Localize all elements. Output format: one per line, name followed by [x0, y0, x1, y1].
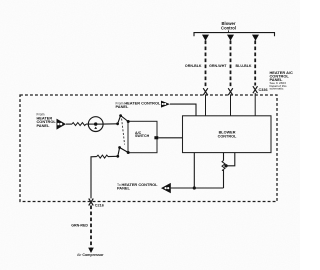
svg-text:CONTROL: CONTROL	[218, 134, 237, 138]
A/C switch box	[128, 121, 157, 152]
striped wire to A/C compressor	[90, 206, 92, 249]
resistor (in-line squiggle, lower-left)	[97, 155, 108, 158]
striped wire 3 (BLU-BLK)	[254, 41, 256, 86]
label "From HEATER CONTROL PANEL" (top)	[116, 100, 162, 109]
svg-text:PANEL: PANEL	[117, 186, 131, 191]
wire A/C switch to blower control	[158, 137, 183, 139]
svg-text:GRN-WHT: GRN-WHT	[209, 64, 227, 68]
svg-text:GRN-RED: GRN-RED	[71, 224, 88, 228]
switch blade (top)	[116, 114, 130, 125]
in-line connector X on wire 1	[203, 88, 208, 95]
in-line connector X (C216)	[89, 199, 94, 206]
wire circle to A/C switch	[103, 123, 118, 125]
wire from connector to box (x=255.2)	[254, 93, 256, 116]
wire to left corner and down	[91, 157, 97, 199]
wire from top arrow to blower control box	[170, 104, 196, 116]
wire arrow to resistor	[66, 123, 72, 125]
svg-text:PANEL: PANEL	[37, 123, 51, 128]
wire box to output junction (x=194.3)	[193, 153, 195, 189]
arrow to air compressor	[88, 248, 94, 253]
wire to heater control panel (horizontal)	[171, 187, 224, 189]
label "To HEATER CONTROL PANEL"	[117, 182, 158, 191]
resistor (vertical squiggle)	[222, 161, 225, 171]
EVTM arrow (to heater control panel)	[161, 183, 171, 193]
blower control box	[183, 116, 272, 153]
in-line connector X on wire 3	[253, 86, 258, 93]
arrow into wire 1	[202, 35, 209, 41]
arrow into wire 3	[252, 35, 259, 41]
connector bracket label "Blower Control"	[221, 21, 236, 30]
jumper wire to second box pin	[226, 153, 235, 166]
bracket tick	[228, 30, 230, 32]
EVTM arrow (from heater control panel, top)	[161, 101, 170, 108]
in-line connector X on wire 2	[228, 88, 233, 95]
wire from connector to box (x=230.5)	[230, 95, 232, 116]
svg-text:PANEL: PANEL	[116, 104, 130, 109]
wire from box down through resistor to horizontal run	[223, 153, 225, 161]
wire from bottom switch blade left	[108, 155, 118, 157]
junction node	[193, 186, 196, 189]
junction node at resistor tap	[224, 164, 227, 167]
svg-text:BLU-BLK: BLU-BLK	[236, 64, 252, 68]
striped wire 2 (GRN-WHT)	[230, 41, 232, 88]
svg-text:ORN-BLK: ORN-BLK	[185, 64, 202, 68]
arrow into wire 2	[227, 35, 234, 41]
svg-text:C216: C216	[95, 203, 104, 207]
switch output pad	[154, 136, 158, 139]
thermal limiter (circle component)	[88, 117, 103, 132]
svg-text:Air Compressor: Air Compressor	[77, 253, 104, 257]
switch blade (bottom)	[116, 146, 129, 158]
striped wire 1 (ORN-BLK)	[205, 41, 207, 88]
svg-text:Control: Control	[221, 26, 236, 31]
heater A/C control panel note (right)	[270, 70, 294, 90]
wire from C336 connector to blower control box (x=205.5)	[205, 95, 207, 116]
svg-text:schematic: schematic	[270, 86, 284, 90]
dashed component outline box	[20, 95, 277, 202]
resistor (in-line squiggle)	[72, 123, 86, 126]
wire resistor to thermal limiter	[86, 123, 88, 125]
connector bracket	[194, 33, 275, 37]
switch linkage (dashed)	[122, 119, 125, 145]
svg-text:C336: C336	[259, 88, 268, 92]
label "From HEATER CONTROL PANEL" (left)	[37, 112, 57, 127]
EVTM arrow (from heater control panel, left)	[57, 119, 67, 130]
svg-text:SWITCH: SWITCH	[135, 134, 150, 138]
